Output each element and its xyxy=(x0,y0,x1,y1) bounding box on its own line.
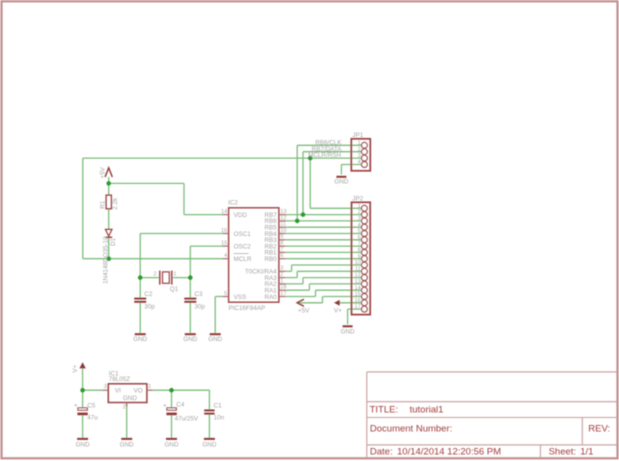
capacitor C1 body xyxy=(204,409,214,411)
wire RA2 to JP2 xyxy=(286,283,303,285)
JP2 pin 17 xyxy=(362,306,368,312)
wire C2 to GND xyxy=(139,302,141,333)
svg-text:C1: C1 xyxy=(214,402,223,409)
svg-text:2.2k: 2.2k xyxy=(112,197,119,210)
wire MCLR to JP2 pin1 vertical xyxy=(309,158,311,208)
ground below JP2 xyxy=(343,325,353,327)
junction xyxy=(106,256,111,261)
capacitor C4 body xyxy=(167,408,176,410)
svg-text:10: 10 xyxy=(354,260,360,266)
svg-text:14: 14 xyxy=(221,209,227,215)
wire C4 to GND xyxy=(171,415,173,438)
IC2 pin 12 RB6 xyxy=(279,220,286,222)
wire JP2 pin17 to GND xyxy=(348,308,362,310)
JP2 pin 3 xyxy=(362,218,368,224)
IC2 pin 6 RB0 xyxy=(279,258,286,260)
JP2 pin 12 xyxy=(362,275,368,281)
JP2 pin 15 xyxy=(362,294,368,300)
svg-text:11: 11 xyxy=(280,222,286,228)
wire RB3 to JP2 xyxy=(286,239,362,241)
wire OSC2 net xyxy=(190,245,222,247)
wire IC1 VO to C1 xyxy=(153,389,210,391)
JP2 pin 8 xyxy=(362,250,368,256)
IC2 pin 4 MCLR xyxy=(223,258,229,260)
svg-text:C5: C5 xyxy=(87,402,96,409)
svg-text:1N4148DO35-10: 1N4148DO35-10 xyxy=(102,236,109,284)
svg-text:15: 15 xyxy=(221,241,227,247)
junction xyxy=(169,388,174,393)
JP2 pin 4 xyxy=(362,224,368,230)
svg-text:+5V: +5V xyxy=(298,307,310,314)
wire MCLR net horizontal top xyxy=(83,157,362,159)
svg-text:3: 3 xyxy=(104,384,107,390)
svg-text:11: 11 xyxy=(355,266,361,272)
svg-text:IC2: IC2 xyxy=(228,200,238,207)
IC1 pin 3 stub xyxy=(102,389,108,391)
svg-text:GND: GND xyxy=(76,441,90,448)
svg-text:Q1: Q1 xyxy=(170,286,179,293)
svg-text:C3: C3 xyxy=(194,291,203,298)
svg-text:+5V: +5V xyxy=(99,166,106,178)
JP2 pin 7 xyxy=(362,243,368,249)
svg-text:17: 17 xyxy=(354,304,360,310)
svg-text:9: 9 xyxy=(280,234,283,240)
svg-text:4: 4 xyxy=(358,222,361,228)
junction xyxy=(308,156,313,161)
capacitor C5 body xyxy=(78,408,87,410)
svg-text:Sheet:: Sheet: xyxy=(549,446,576,457)
svg-text:RA0: RA0 xyxy=(264,294,277,301)
IC2 pin 16 OSC1 xyxy=(223,233,229,235)
svg-text:GND: GND xyxy=(334,178,348,185)
IC2 pin 7 RB1 xyxy=(279,251,286,253)
ground below C3 xyxy=(185,333,196,335)
svg-text:3: 3 xyxy=(280,266,283,272)
JP2 pin 11 xyxy=(362,268,368,274)
svg-text:2: 2 xyxy=(358,210,361,216)
JP2 pin 14 xyxy=(362,287,368,293)
svg-text:4: 4 xyxy=(358,160,361,166)
svg-text:1/1: 1/1 xyxy=(580,446,593,457)
wire RB4 to JP2 xyxy=(286,233,362,235)
svg-text:TITLE:: TITLE: xyxy=(370,404,399,415)
svg-text:12: 12 xyxy=(354,273,360,279)
svg-text:8: 8 xyxy=(280,241,283,247)
JP1 pin 2 xyxy=(362,149,368,155)
capacitor C3 body xyxy=(184,298,196,300)
svg-text:9: 9 xyxy=(358,254,361,260)
JP2 pin 2 xyxy=(362,212,368,218)
svg-text:VDD: VDD xyxy=(234,212,248,219)
svg-text:6: 6 xyxy=(358,235,361,241)
ground below C4 xyxy=(166,438,177,440)
svg-text:5: 5 xyxy=(358,229,361,235)
wire to JP2 pin1 horizontal xyxy=(310,207,361,209)
op IC2 PIC16F84AP body xyxy=(229,208,279,302)
svg-text:D1: D1 xyxy=(110,237,117,246)
svg-text:VI: VI xyxy=(115,387,121,394)
svg-text:16: 16 xyxy=(354,298,360,304)
ground below VSS xyxy=(210,333,221,335)
svg-text:tutorial1: tutorial1 xyxy=(410,404,444,415)
wire +5V arrow to R1 xyxy=(108,177,110,195)
IC2 pin 14 VDD xyxy=(223,214,229,216)
JP2 pin 16 xyxy=(362,300,368,306)
svg-text:REV:: REV: xyxy=(588,423,610,434)
JP2 pin 5 xyxy=(362,231,368,237)
wire RB6 to JP2 xyxy=(286,220,362,222)
svg-text:VO: VO xyxy=(134,387,143,394)
wire OSC1 net xyxy=(140,233,222,235)
svg-text:GND: GND xyxy=(183,336,197,343)
regulator IC1 body xyxy=(108,384,147,403)
junction xyxy=(301,212,306,217)
junction xyxy=(138,275,143,280)
svg-text:C2: C2 xyxy=(144,291,153,298)
diode D1 body xyxy=(105,229,112,236)
ground below JP1 xyxy=(336,176,346,178)
wire RA0 to JP2 xyxy=(286,296,316,298)
wire C1 branch xyxy=(208,390,210,409)
svg-text:GND: GND xyxy=(165,441,179,448)
svg-text:13: 13 xyxy=(354,279,360,285)
wire IC1 GND pin xyxy=(126,403,128,439)
wire RB2 to JP2 xyxy=(286,245,362,247)
svg-text:10: 10 xyxy=(280,228,286,234)
connector JP1 body xyxy=(351,139,370,171)
wire V+ to JP2 pin16 xyxy=(340,302,362,304)
IC1 pin 2 stub xyxy=(126,403,128,407)
IC1 pin 1 stub xyxy=(147,389,153,391)
svg-text:2: 2 xyxy=(358,147,361,153)
crystal Q1 body xyxy=(159,271,161,285)
wire RB1 to JP2 xyxy=(286,251,362,253)
svg-text:PIC16F84AP: PIC16F84AP xyxy=(229,305,266,312)
IC2 pin 1 RA2 xyxy=(279,283,286,285)
connector JP2 body xyxy=(352,202,371,314)
IC2 pin 15 OSC2 xyxy=(223,245,229,247)
svg-text:RB0: RB0 xyxy=(264,256,277,263)
wire C1 to GND xyxy=(208,414,210,438)
junction xyxy=(188,275,193,280)
svg-text:Date:: Date: xyxy=(370,446,393,457)
svg-text:2: 2 xyxy=(153,271,156,277)
IC2 pin 2 RA3 xyxy=(279,277,286,279)
JP1 pin 1 xyxy=(362,142,368,148)
svg-text:47u/25V: 47u/25V xyxy=(175,415,199,422)
svg-text:2: 2 xyxy=(280,272,283,278)
wire +5V to VDD elbow xyxy=(109,182,184,184)
wire RB7/DATA horizontal to JP1 pin2 xyxy=(303,151,361,153)
junction xyxy=(106,181,111,186)
JP2 pin 10 xyxy=(362,262,368,268)
JP1 pin 3 xyxy=(362,155,368,161)
ground below IC1 xyxy=(121,438,132,440)
IC2 pin 5 VSS xyxy=(223,296,229,298)
title block frame xyxy=(367,371,617,373)
svg-text:GND: GND xyxy=(208,336,222,343)
wire crystal right xyxy=(173,277,191,279)
svg-text:1: 1 xyxy=(280,278,283,284)
JP2 pin 1 xyxy=(362,205,368,211)
wire RB7/DATA vertical xyxy=(302,152,304,215)
svg-text:1: 1 xyxy=(358,140,361,146)
svg-text:V+: V+ xyxy=(334,307,342,314)
svg-text:7: 7 xyxy=(280,247,283,253)
svg-text:+: + xyxy=(163,403,167,410)
svg-text:+: + xyxy=(74,403,78,410)
svg-text:10n: 10n xyxy=(214,415,225,422)
svg-text:GND: GND xyxy=(341,329,355,336)
svg-text:78L05Z: 78L05Z xyxy=(109,376,131,383)
svg-text:13: 13 xyxy=(280,209,286,215)
svg-text:MCLR: MCLR xyxy=(234,256,252,263)
wire RB5 to JP2 xyxy=(286,226,362,228)
svg-text:18: 18 xyxy=(280,285,286,291)
wire RA3 to JP2 xyxy=(286,277,297,279)
svg-text:2: 2 xyxy=(123,404,126,410)
svg-text:GND: GND xyxy=(120,441,134,448)
svg-text:4: 4 xyxy=(224,253,227,259)
wire +5V to JP2 pin15 xyxy=(299,302,323,304)
svg-text:14: 14 xyxy=(354,285,360,291)
ground below C1 xyxy=(204,438,215,440)
svg-text:JP2: JP2 xyxy=(352,195,363,202)
IC2 pin 10 RB4 xyxy=(279,233,286,235)
resistor R1 body xyxy=(106,195,111,209)
JP2 pin 6 xyxy=(362,237,368,243)
IC2 pin 11 RB5 xyxy=(279,226,286,228)
junction xyxy=(80,388,85,393)
+5V supply arrow near JP2 xyxy=(297,299,304,306)
svg-text:1: 1 xyxy=(358,203,361,209)
svg-text:8: 8 xyxy=(358,248,361,254)
svg-text:30p: 30p xyxy=(144,304,155,311)
IC2 pin 3 T0CKI/RA4 xyxy=(279,270,286,272)
svg-text:OSC1: OSC1 xyxy=(234,231,252,238)
svg-text:GND: GND xyxy=(123,395,137,402)
wire R1 to D1 xyxy=(108,209,110,229)
svg-text:15: 15 xyxy=(354,292,360,298)
V+ supply arrow bottom left xyxy=(79,362,85,368)
wire C5 to GND xyxy=(82,415,84,438)
JP2 pin 9 xyxy=(362,256,368,262)
svg-text:C4: C4 xyxy=(176,402,185,409)
wire D1 to MCLR net xyxy=(108,238,110,259)
IC2 pin 9 RB3 xyxy=(279,239,286,241)
IC2 pin 17 RA0 xyxy=(279,296,286,298)
wire RB7 to JP2 xyxy=(286,214,362,216)
svg-text:GND: GND xyxy=(133,336,147,343)
svg-text:3: 3 xyxy=(358,153,361,159)
wire VSS to GND xyxy=(215,296,222,298)
+5V supply arrow top left xyxy=(105,168,112,177)
V+ supply arrow near JP2 xyxy=(334,300,340,306)
wire C4 branch xyxy=(171,390,173,407)
wire RB6/CLK horizontal to JP1 pin1 xyxy=(297,144,361,146)
svg-text:16: 16 xyxy=(221,228,227,234)
svg-text:17: 17 xyxy=(280,291,286,297)
svg-text:OSC2: OSC2 xyxy=(234,243,252,250)
svg-text:47u: 47u xyxy=(87,414,98,421)
wire RB0 to JP2 xyxy=(286,258,362,260)
IC2 pin 13 RB7 xyxy=(279,214,286,216)
wire MCLR net left vertical xyxy=(82,158,84,259)
svg-text:3: 3 xyxy=(358,216,361,222)
wire MCLR net to IC2 xyxy=(83,258,223,260)
ground below C5 xyxy=(77,438,88,440)
svg-text:1: 1 xyxy=(173,271,176,277)
IC2 pin 18 RA1 xyxy=(279,289,286,291)
svg-text:V+: V+ xyxy=(72,364,79,372)
wire crystal left xyxy=(140,277,159,279)
svg-text:6: 6 xyxy=(280,253,283,259)
svg-text:Document Number:: Document Number: xyxy=(370,423,452,434)
wire RB6/CLK vertical xyxy=(296,145,298,221)
svg-text:1: 1 xyxy=(148,384,151,390)
wire C3 to GND xyxy=(189,302,191,333)
svg-text:VSS: VSS xyxy=(234,294,247,301)
svg-text:MCLR/RSH: MCLR/RSH xyxy=(308,152,341,159)
wire V+ to C5/IC1 xyxy=(82,368,84,407)
svg-text:12: 12 xyxy=(280,215,286,221)
svg-text:JP1: JP1 xyxy=(352,132,363,139)
svg-text:30p: 30p xyxy=(194,304,205,311)
svg-text:7: 7 xyxy=(358,241,361,247)
JP2 pin 13 xyxy=(362,281,368,287)
wire RA4 to JP2 xyxy=(286,270,292,272)
wire JP1 pin4 to GND xyxy=(341,164,361,166)
svg-text:5: 5 xyxy=(224,291,227,297)
junction xyxy=(295,219,300,224)
svg-text:GND: GND xyxy=(202,441,216,448)
svg-text:R1: R1 xyxy=(100,200,107,209)
wire RA1 to JP2 xyxy=(286,289,310,291)
capacitor C2 body xyxy=(134,298,146,300)
ground below C2 xyxy=(135,333,146,335)
svg-text:10/14/2014 12:20:56 PM: 10/14/2014 12:20:56 PM xyxy=(397,446,501,457)
JP1 pin 4 xyxy=(362,162,368,168)
wire to IC1 VI xyxy=(83,389,103,391)
IC2 pin 8 RB2 xyxy=(279,245,286,247)
